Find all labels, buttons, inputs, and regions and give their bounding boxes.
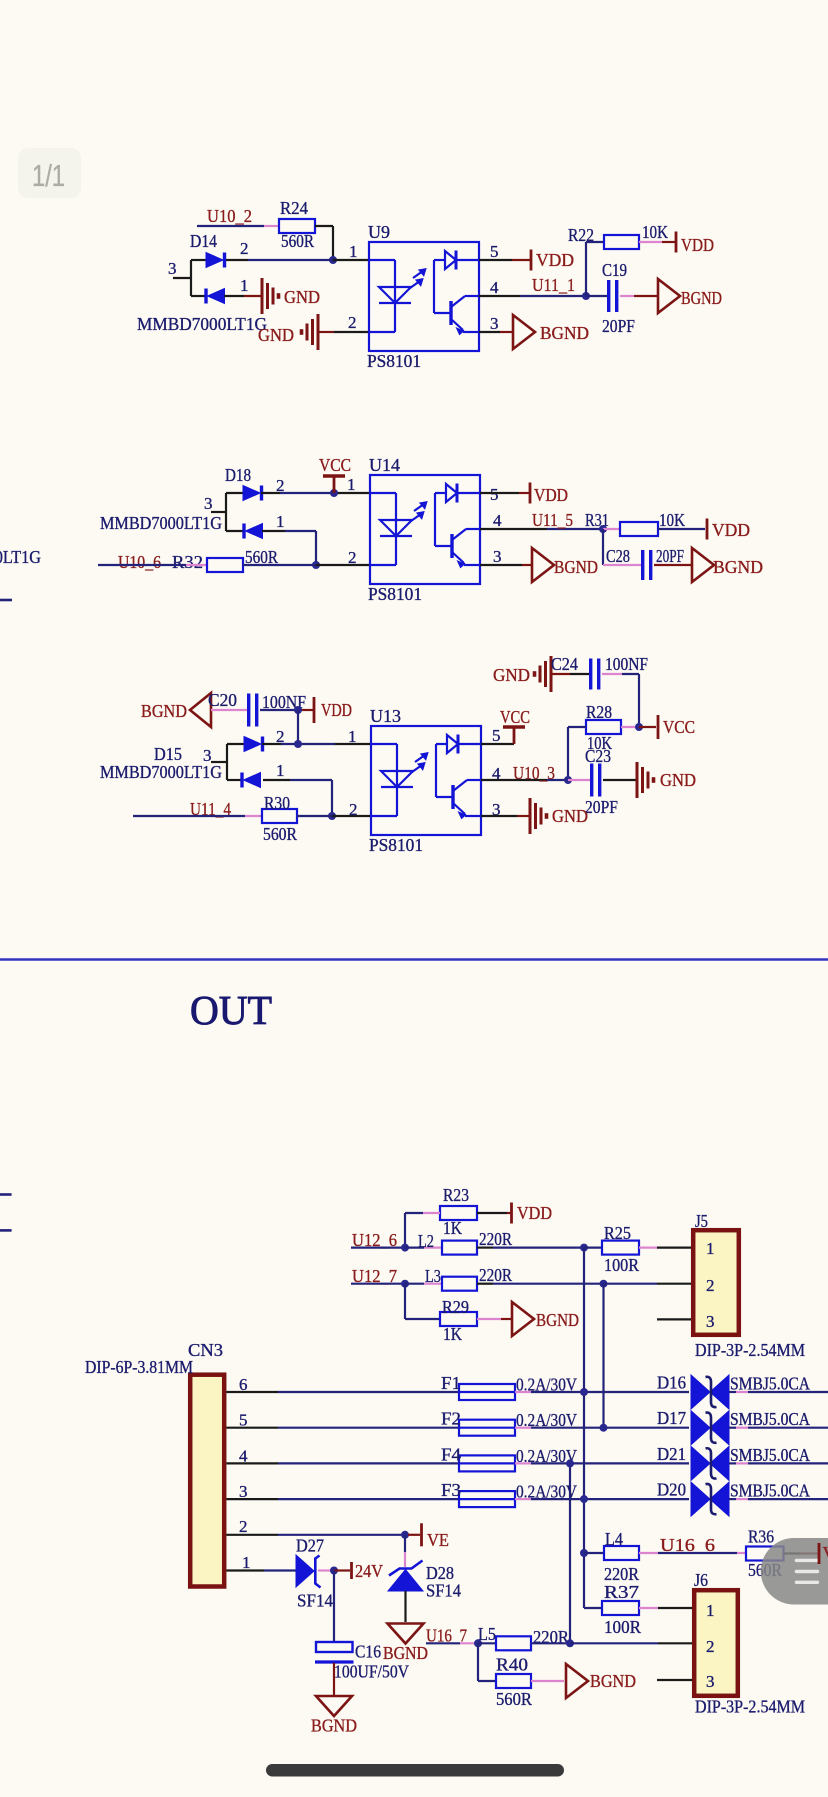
svg-text:SMBJ5.0CA: SMBJ5.0CA [730, 1481, 810, 1501]
svg-text:D27: D27 [296, 1536, 324, 1556]
ground BGND at C20 [190, 693, 211, 727]
connector J6 [694, 1590, 738, 1696]
svg-text:SF14: SF14 [426, 1581, 461, 1601]
svg-text:SMBJ5.0CA: SMBJ5.0CA [730, 1374, 810, 1394]
diode D17 TVS SMBJ5.0CA [691, 1411, 729, 1445]
wire R31 to VDD [658, 528, 705, 530]
capacitor C16 polarized [315, 1642, 354, 1662]
wire U10_2 to R24 [197, 225, 264, 227]
svg-text:2: 2 [706, 1637, 715, 1656]
junction F2 rail [600, 1424, 608, 1432]
wire U13 pin3 to GND [481, 815, 517, 817]
svg-text:VDD: VDD [536, 250, 574, 270]
svg-text:BGND: BGND [681, 288, 722, 308]
svg-text:L3: L3 [425, 1266, 441, 1286]
power VCC at U13 pin5 [513, 727, 516, 744]
wire J5 pin3 stub [657, 1318, 691, 1320]
svg-text:100R: 100R [604, 1617, 641, 1637]
wire junction to C23 [568, 779, 590, 781]
op-amp U13 optocoupler PS8101 [371, 726, 481, 835]
svg-text:1: 1 [347, 475, 356, 494]
svg-text:GND: GND [284, 287, 320, 307]
svg-text:R29: R29 [442, 1297, 469, 1317]
wire clipped stub left 1 [0, 1193, 12, 1196]
svg-text:GND: GND [493, 665, 530, 685]
floating menu button [761, 1538, 828, 1605]
svg-text:SF14: SF14 [297, 1591, 333, 1611]
svg-text:DIP-3P-2.54MM: DIP-3P-2.54MM [695, 1340, 805, 1360]
resistor R25 [602, 1241, 639, 1255]
wire R23 to VDD [477, 1212, 507, 1214]
svg-text:20PF: 20PF [585, 797, 618, 817]
junction L4/rail [580, 1549, 588, 1557]
wire L2 to R25 [477, 1246, 493, 1248]
svg-text:1: 1 [240, 276, 249, 295]
svg-text:U11_1: U11_1 [532, 275, 575, 295]
junction R29/U12_7 [401, 1280, 409, 1288]
wire D14 pin1 to GND [224, 295, 244, 297]
wire R37 to J6 pin1 [639, 1607, 658, 1609]
wire C19 to BGND [620, 295, 634, 297]
svg-text:5: 5 [490, 242, 499, 261]
junction R28/C24/VCC [635, 723, 643, 731]
svg-text:R23: R23 [443, 1185, 469, 1205]
svg-text:3: 3 [204, 494, 213, 513]
junction R32/D18 [312, 561, 320, 569]
svg-text:VDD: VDD [517, 1203, 552, 1223]
resistor R29 [440, 1312, 477, 1326]
svg-text:1K: 1K [443, 1324, 462, 1344]
ground BGND at C19 [658, 279, 680, 313]
wire R22 to VDD [639, 241, 662, 243]
wire U12_7 row [351, 1283, 405, 1285]
wire U13 pin4 net U10_3 [481, 779, 547, 781]
wire CN3 pin1 to D27 [227, 1569, 265, 1571]
svg-text:U10_6: U10_6 [118, 552, 161, 572]
wire U12_6 row [351, 1246, 405, 1248]
separator line between sheets [0, 958, 828, 961]
svg-text:C24: C24 [551, 654, 578, 674]
svg-text:2: 2 [240, 239, 249, 258]
svg-text:1: 1 [349, 242, 358, 261]
junction F4 rail [566, 1459, 574, 1467]
junction U10_3 [564, 776, 572, 784]
power VCC at U14 pin1 [333, 476, 336, 493]
svg-text:1: 1 [348, 727, 357, 746]
svg-text:2: 2 [706, 1276, 715, 1295]
wire junction to R31 [603, 528, 620, 530]
wire F1 to D16 [515, 1391, 531, 1393]
svg-text:SMBJ5.0CA: SMBJ5.0CA [730, 1409, 810, 1429]
svg-text:100NF: 100NF [605, 654, 648, 674]
wire U9 pin4 net U11_1 [479, 295, 520, 297]
svg-text:1: 1 [706, 1239, 715, 1258]
svg-text:U10_3: U10_3 [513, 763, 555, 783]
wire D14 to U9 pin1 [223, 259, 248, 261]
junction U11_5 [599, 525, 607, 533]
wire L3 to J5 pin2 [477, 1283, 493, 1285]
resistor R40 [496, 1674, 531, 1688]
svg-text:5: 5 [492, 726, 501, 745]
svg-text:PS8101: PS8101 [367, 351, 421, 371]
wire L5 to J6 pin2 [531, 1642, 570, 1644]
svg-text:R25: R25 [604, 1223, 631, 1243]
power VDD at R22 [675, 232, 678, 253]
svg-text:220R: 220R [479, 1265, 512, 1285]
svg-text:J5: J5 [695, 1211, 708, 1231]
wire U9 pin3 to BGND [479, 331, 500, 333]
resistor R24 [279, 219, 315, 233]
wire J6 pin3 stub [657, 1679, 692, 1681]
svg-text:2: 2 [348, 313, 357, 332]
wire D18 pin1 down to R32 net [262, 530, 285, 532]
junction R23/U12_6 [401, 1244, 409, 1252]
ground BGND at R40 [566, 1664, 588, 1698]
wire U14 pin4 net U11_5 [480, 528, 547, 530]
ground GND at U9 pin2 [302, 314, 319, 350]
svg-text:220R: 220R [604, 1564, 639, 1584]
junction U11_1 [582, 292, 590, 300]
inductor L5 [496, 1636, 531, 1650]
svg-text:R37: R37 [604, 1582, 639, 1602]
svg-text:3: 3 [493, 547, 502, 566]
svg-text:10K: 10K [642, 222, 668, 242]
svg-text:VCC: VCC [663, 717, 695, 737]
wire U9 pin5 to VDD [479, 259, 512, 261]
svg-text:DIP-6P-3.81MM: DIP-6P-3.81MM [85, 1357, 193, 1377]
capacitor C24 [591, 659, 599, 690]
wire U10_6 to R32 [98, 564, 186, 566]
junction F3 rail [580, 1495, 588, 1503]
svg-text:D18: D18 [225, 465, 251, 485]
svg-text:1: 1 [276, 761, 285, 780]
resistor R31 [620, 522, 658, 536]
wire C28 to BGND [654, 564, 691, 566]
fuse F3 [459, 1491, 515, 1507]
junction F1 rail [580, 1388, 588, 1396]
diode D28 SF14 clamp [388, 1561, 423, 1592]
wire D16 to edge [729, 1391, 736, 1393]
wire R40 to BGND [531, 1680, 564, 1682]
wire junction down to C28 [602, 529, 604, 565]
wire junction up to R22 [585, 242, 587, 296]
page badge 1/1 [18, 148, 81, 198]
svg-text:3: 3 [490, 314, 499, 333]
svg-text:F4: F4 [441, 1444, 461, 1464]
inductor L2 [442, 1241, 477, 1255]
wire R36 to V [784, 1552, 802, 1554]
wire clipped stub left [0, 599, 12, 602]
wire D15 to U13 pin1 [262, 743, 281, 745]
svg-text:F3: F3 [441, 1480, 461, 1500]
svg-text:C19: C19 [602, 260, 627, 280]
power VDD at U9 pin5 [530, 250, 533, 271]
wire D20 to edge [729, 1498, 736, 1500]
svg-text:BGND: BGND [383, 1643, 428, 1663]
power VDD at R36 clipped [818, 1543, 821, 1564]
svg-text:GND: GND [660, 770, 696, 790]
junction D15/C20 [294, 740, 302, 748]
ground BGND at D28 [388, 1624, 424, 1644]
transistor D18 dual diode MMBD7000LT1G [211, 486, 263, 539]
svg-text:220R: 220R [479, 1229, 512, 1249]
svg-text:3: 3 [168, 259, 177, 278]
svg-text:R30: R30 [264, 793, 290, 813]
svg-text:4: 4 [493, 511, 502, 530]
junction VCC/U14.1 [330, 489, 338, 497]
svg-text:D15: D15 [154, 744, 182, 764]
wire rail F4 to L5 [569, 1463, 571, 1643]
capacitor C28 [643, 550, 651, 580]
wire junction to C19 [586, 295, 607, 297]
op-amp U14 optocoupler PS8101 [370, 475, 480, 584]
wire GND to C24 [551, 673, 570, 675]
wire rail L3 to F2 [602, 1284, 604, 1428]
svg-text:R24: R24 [280, 198, 308, 218]
svg-text:BGND: BGND [141, 701, 187, 721]
svg-text:VDD: VDD [681, 235, 714, 255]
wire U16_7 to L5 [426, 1642, 460, 1644]
wire rail to L4 [584, 1552, 604, 1554]
svg-text:1: 1 [242, 1553, 251, 1572]
power 24V [350, 1562, 353, 1579]
wire F4 to D21 [515, 1462, 531, 1464]
diode D16 TVS SMBJ5.0CA [691, 1375, 729, 1409]
power VE [420, 1523, 423, 1546]
svg-text:4: 4 [490, 278, 499, 297]
resistor R32 [207, 558, 243, 572]
diode D21 TVS SMBJ5.0CA [691, 1446, 729, 1480]
svg-text:PS8101: PS8101 [369, 835, 423, 855]
svg-text:3: 3 [706, 1672, 715, 1691]
wire CN3 pin3 to fuse F3 [227, 1498, 279, 1500]
svg-text:D21: D21 [657, 1444, 686, 1464]
wire R28 to VCC [621, 726, 639, 728]
power VDD at C20 [313, 697, 316, 723]
svg-text:F1: F1 [441, 1373, 461, 1393]
wire U14 pin3 to BGND [480, 564, 522, 566]
svg-text:D20: D20 [657, 1480, 686, 1500]
junction VE/D28 [401, 1531, 409, 1539]
resistor R30 [262, 809, 297, 823]
fuse F2 [459, 1420, 515, 1436]
resistor R37 [602, 1601, 639, 1615]
junction D27/C16 [330, 1567, 338, 1575]
wire U14 pin5 to VDD [480, 492, 519, 494]
capacitor C23 [592, 764, 600, 797]
ground GND at C24 [535, 656, 552, 692]
svg-text:R28: R28 [586, 702, 612, 722]
junction L5/R40 [474, 1639, 482, 1647]
connector CN3 [190, 1375, 224, 1587]
svg-text:2: 2 [239, 1517, 248, 1536]
svg-text:1: 1 [706, 1601, 715, 1620]
svg-text:2: 2 [349, 800, 358, 819]
ground GND at U13 pin3 [530, 798, 547, 834]
resistor R23 [440, 1206, 477, 1220]
svg-text:U13: U13 [370, 706, 401, 726]
svg-text:VCC: VCC [500, 707, 530, 727]
svg-text:VE: VE [427, 1530, 449, 1550]
svg-text:C20: C20 [208, 690, 237, 710]
resistor R36 [746, 1547, 784, 1561]
svg-text:1/1: 1/1 [32, 158, 65, 193]
junction C20/VDD [294, 706, 302, 714]
svg-text:20PF: 20PF [602, 316, 635, 336]
svg-text:L2: L2 [418, 1231, 434, 1251]
wire F3 to D20 [515, 1498, 531, 1500]
svg-text:BGND: BGND [590, 1671, 636, 1691]
svg-text:R32: R32 [172, 552, 203, 572]
svg-text:1: 1 [276, 512, 285, 531]
svg-text:BGND: BGND [536, 1310, 579, 1330]
fuse F1 [459, 1384, 515, 1400]
resistor R28 [586, 720, 621, 734]
diode D27 SF14 [296, 1555, 321, 1588]
wire CN3 pin4 to fuse F4 [227, 1462, 279, 1464]
svg-text:DIP-3P-2.54MM: DIP-3P-2.54MM [695, 1697, 805, 1717]
power VDD at R23 [510, 1203, 513, 1224]
wire R29 to BGND [477, 1318, 501, 1320]
svg-text:2: 2 [348, 548, 357, 567]
svg-text:VDD: VDD [534, 485, 568, 505]
wire L4 to R36 [639, 1552, 658, 1554]
svg-text:C28: C28 [606, 546, 630, 566]
capacitor C20 [249, 694, 257, 727]
svg-text:3: 3 [706, 1312, 715, 1331]
wire GND to U9 pin2 [318, 331, 334, 333]
op-amp U9 optocoupler PS8101 [369, 242, 479, 351]
wire R32 to U14 pin2 [243, 564, 316, 566]
svg-text:D14: D14 [190, 231, 217, 251]
ground BGND at U9 pin3 [513, 315, 535, 349]
svg-text:F2: F2 [441, 1409, 461, 1429]
junction L3/rail [600, 1280, 608, 1288]
svg-text:VDD: VDD [823, 1543, 828, 1563]
wire D17 to edge [729, 1427, 736, 1429]
svg-text:U9: U9 [368, 222, 390, 242]
ground BGND at U14 pin3 [532, 548, 554, 582]
wire R24 to node [315, 225, 333, 227]
wire C20 to VDD [260, 709, 298, 711]
home indicator bar [266, 1764, 564, 1777]
ground GND at C23 [637, 762, 654, 798]
wire junction down to pin1 net [297, 710, 299, 744]
diode D20 TVS SMBJ5.0CA [691, 1482, 729, 1516]
svg-text:U10_2: U10_2 [207, 206, 252, 226]
wire U13 pin5 to VCC [481, 743, 514, 745]
svg-text:24V: 24V [355, 1561, 383, 1581]
svg-text:J6: J6 [694, 1570, 708, 1590]
wire CN3 pin2 to VE [227, 1534, 279, 1536]
svg-text:C23: C23 [585, 746, 611, 766]
ground GND at D14 [262, 278, 279, 314]
svg-text:R36: R36 [748, 1527, 774, 1547]
wire D28 to BGND [404, 1591, 406, 1622]
svg-text:BGND: BGND [540, 323, 589, 343]
wire C24 to VCC rail [602, 673, 622, 675]
svg-text:560R: 560R [263, 824, 297, 844]
svg-text:100UF/50V: 100UF/50V [334, 1662, 409, 1682]
wire D27 to 24V [318, 1569, 334, 1571]
svg-text:560R: 560R [281, 231, 314, 251]
connector J5 [693, 1230, 739, 1335]
power VDD at U14 pin5 [529, 483, 532, 504]
capacitor C19 [609, 280, 617, 312]
inductor L4 [604, 1546, 639, 1560]
svg-text:R22: R22 [568, 225, 594, 245]
wire C23 to GND [603, 779, 636, 781]
ground BGND at C28 [692, 548, 714, 582]
junction L5/rail [566, 1639, 574, 1647]
fuse F4 [459, 1455, 515, 1471]
svg-text:GND: GND [258, 325, 294, 345]
ground BGND at R29 [512, 1302, 534, 1336]
svg-text:U11_5: U11_5 [532, 510, 573, 530]
svg-text:D16: D16 [657, 1373, 686, 1393]
wire CN3 pin6 to fuse F1 [227, 1391, 279, 1393]
wire U11_4 to R30 [133, 815, 245, 817]
wire R28 left to pin4 net [568, 726, 586, 728]
wire rail L2 to F1 F3 L4 R37 [583, 1248, 585, 1553]
wire R25 to J5 pin1 [639, 1246, 657, 1248]
svg-text:CN3: CN3 [188, 1340, 223, 1360]
svg-text:20PF: 20PF [656, 546, 684, 566]
wire D21 to edge [729, 1462, 736, 1464]
svg-text:VDD: VDD [712, 520, 750, 540]
svg-text:GND: GND [552, 806, 588, 826]
transistor D15 dual diode MMBD7000LT1G [211, 737, 263, 788]
wire C16 to BGND [333, 1663, 335, 1695]
svg-text:U14: U14 [369, 455, 400, 475]
svg-text:R40: R40 [496, 1655, 528, 1675]
svg-text:MMBD7000LT1G: MMBD7000LT1G [100, 513, 222, 533]
transistor D14 dual diode MMBD7000LT1G [173, 253, 225, 304]
junction node R24/D14/U9.1 [329, 256, 337, 264]
wire D27 down to C16 [333, 1571, 335, 1643]
wire R23 left leg [423, 1212, 440, 1214]
resistor R22 [604, 235, 639, 249]
svg-text:VDD: VDD [321, 700, 352, 720]
svg-text:L4: L4 [605, 1529, 623, 1549]
wire D15 pin1 down to R30 net [263, 779, 290, 781]
svg-text:BGND: BGND [311, 1716, 357, 1736]
svg-text:1K: 1K [443, 1218, 462, 1238]
wire D28 branch [404, 1535, 406, 1552]
junction R30/D15 [328, 812, 336, 820]
wire clipped stub left 2 [0, 1229, 12, 1232]
power VCC at R28 [657, 715, 660, 739]
svg-text:C16: C16 [355, 1642, 381, 1662]
svg-text:MMBD7000LT1G: MMBD7000LT1G [100, 762, 222, 782]
svg-text:SMBJ5.0CA: SMBJ5.0CA [730, 1445, 810, 1465]
svg-text:BGND: BGND [554, 557, 598, 577]
wire BGND to C20 [211, 709, 247, 711]
wire CN3 pin5 to fuse F2 [227, 1427, 279, 1429]
svg-text:5: 5 [490, 485, 499, 504]
wire F2 to D17 [515, 1427, 531, 1429]
inductor L3 [442, 1277, 477, 1291]
svg-text:MMBD7000LT1G: MMBD7000LT1G [0, 547, 41, 567]
svg-text:10K: 10K [659, 510, 685, 530]
wire R40 leg [477, 1643, 479, 1681]
svg-text:MMBD7000LT1G: MMBD7000LT1G [137, 314, 267, 334]
svg-text:100R: 100R [604, 1255, 639, 1275]
wire D18 to U14 pin1 [261, 492, 280, 494]
wire R30 to U13 pin2 [297, 815, 332, 817]
svg-text:L5: L5 [478, 1624, 496, 1644]
junction L2/rail [580, 1244, 588, 1252]
